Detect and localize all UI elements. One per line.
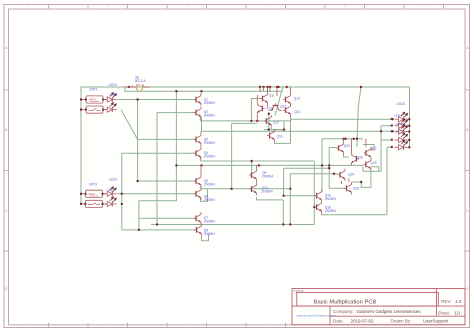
wire q2 emitter output: [200, 118, 291, 121]
junction node (345.5,138.8): [344, 138, 346, 140]
junction node (258.9,165.4): [258, 164, 260, 166]
wire led row5 feed: [387, 146, 393, 148]
wire led2 to q6 base: [117, 193, 196, 195]
wire q5 q6 emitter line: [202, 188, 291, 190]
junction node (251.4,120.9): [250, 120, 252, 122]
wire q6 emitter hook: [201, 189, 208, 202]
svg-text:LED3: LED3: [108, 188, 116, 192]
led LED6: [395, 119, 409, 129]
junction node (176.4,165.4): [175, 164, 177, 166]
transistor Q1 collector stub: [200, 91, 202, 93]
transistor Q5 collector stub: [200, 165, 202, 174]
junction node (267.5,87): [266, 86, 268, 88]
junction node (392.6,119.2): [391, 118, 393, 120]
transistor Q5: [194, 175, 202, 187]
wire q23 emitter loop: [361, 171, 371, 187]
wire box bottom: [363, 165, 381, 171]
junction node (201.5,91.2): [200, 90, 202, 92]
wire led2 net vertical: [121, 153, 123, 230]
transistor Q22 collector to rail stub: [365, 139, 367, 147]
wire led row2 feed: [381, 125, 393, 127]
svg-text:Q22: Q22: [371, 147, 377, 151]
svg-text:LED2: LED2: [109, 178, 117, 182]
wire led1 diagonal: [121, 110, 138, 140]
svg-text:2N3904: 2N3904: [325, 197, 336, 201]
wire led row4 feed: [381, 139, 393, 141]
junction node (121.8,193.8): [121, 193, 123, 195]
junction node (270,87): [269, 86, 271, 88]
wire bottom long net: [151, 224, 314, 226]
svg-text:2N3904: 2N3904: [262, 189, 273, 193]
wire q7 base feed: [139, 217, 196, 219]
transistor Q3: [194, 133, 202, 145]
wire q2 emitter down to row3: [201, 118, 203, 132]
junction node (137.6,181): [136, 180, 138, 182]
svg-text:Q24: Q24: [348, 173, 354, 177]
junction node (290.3,188.8): [289, 188, 291, 190]
junction node (409.3,131.6): [408, 130, 410, 132]
junction node (176.4,91.2): [175, 90, 177, 92]
svg-text:LED5: LED5: [397, 102, 405, 106]
svg-text:4: 4: [265, 5, 267, 9]
svg-text:REV:: REV:: [441, 299, 452, 304]
transistor Q11 emitter stub: [267, 105, 269, 107]
junction node (392.6,131.3): [391, 130, 393, 132]
transistor Q24: [338, 169, 346, 181]
led LED2: [103, 187, 117, 197]
wire second rail: [125, 87, 283, 91]
wire line A vertical: [313, 161, 315, 225]
svg-text:2N3904: 2N3904: [204, 113, 215, 117]
svg-text:easyeda.com/UserSupport​easyed: easyeda.com/UserSupport​easyeda: [297, 315, 337, 318]
cluster1 pin stub b: [263, 87, 265, 91]
wire q16 emitter out: [275, 142, 291, 144]
transistor Q6: [194, 188, 202, 200]
wire cluster2 top: [322, 138, 363, 140]
wire top rail: [81, 86, 410, 88]
wire q25 collector link: [352, 181, 362, 183]
transistor Q24 emitter stub: [340, 181, 342, 184]
wire q18 base stub: [314, 206, 316, 208]
dip switch DIP3a: [81, 190, 107, 197]
transistor Q16: [267, 129, 275, 141]
svg-text:2N3904: 2N3904: [204, 182, 215, 186]
junction node (343.5,138.8): [342, 138, 344, 140]
wire q23 box right: [371, 167, 379, 172]
transistor Q11: [260, 92, 268, 104]
junction node (201.5,165.4): [200, 164, 202, 166]
junction node (353.7,138.8): [353, 138, 355, 140]
transistor Q17 (rotated): [269, 103, 281, 111]
wire q10 emitter out: [257, 197, 284, 200]
transistor Q20 collector stub: [343, 139, 345, 142]
transistor Q11 collector stub: [267, 87, 269, 92]
wire q16 link: [264, 129, 284, 131]
transistor Q12 (mirrored): [257, 102, 265, 114]
svg-text:C: C: [5, 209, 8, 213]
wire q3 base feed: [138, 138, 196, 140]
junction node (409.3,140): [408, 139, 410, 141]
svg-text:2N3904: 2N3904: [204, 155, 215, 159]
wire cluster1 left loop: [251, 99, 262, 121]
wire cluster1 diagonal: [275, 87, 283, 116]
svg-text:6: 6: [423, 5, 425, 9]
transistor Q4: [194, 147, 202, 159]
svg-text:2N3904: 2N3904: [325, 209, 336, 213]
frame tick marks left: [4, 90, 9, 251]
junction node (286.7,87): [286, 86, 288, 88]
wire rail diag to cluster2: [357, 87, 361, 147]
led LED9: [395, 140, 409, 150]
junction node (283.6,195.7): [282, 195, 284, 197]
junction node (157,224.5): [156, 223, 158, 225]
transistor Q22 collector stub: [370, 147, 372, 150]
junction node (257.3,120.9): [256, 120, 258, 122]
led LED1: [103, 103, 117, 113]
svg-text:1.0: 1.0: [455, 299, 462, 304]
transistor Q3 collector stub: [200, 131, 202, 133]
transistor Q3 emitter to Q4 collector stub: [200, 146, 202, 147]
wire q24 base line: [290, 173, 337, 175]
svg-text:Q11: Q11: [269, 94, 275, 98]
wire led0 to q1 base: [117, 99, 196, 101]
wire q22 up link: [363, 145, 374, 151]
svg-text:DIP3: DIP3: [89, 183, 97, 187]
svg-text:C: C: [466, 209, 469, 213]
svg-text:B: B: [466, 128, 468, 132]
svg-text:Q13: Q13: [294, 96, 300, 100]
svg-text:2N3904: 2N3904: [262, 175, 273, 179]
svg-text:B: B: [5, 128, 7, 132]
junction node (121.8,203.9): [121, 203, 123, 205]
wire q24 net vertical: [289, 174, 291, 225]
junction node (129,87): [128, 86, 130, 88]
svg-text:D: D: [5, 287, 8, 291]
svg-text:LED4: LED4: [394, 114, 402, 118]
wire q2-q7 link vertical: [156, 113, 158, 225]
wire row5 vertical to q18 emitter: [386, 147, 388, 214]
junction node (334,173.8): [333, 173, 335, 175]
junction node (329.2,168.2): [328, 167, 330, 169]
transistor Q1: [194, 93, 202, 105]
svg-text:Q15: Q15: [273, 121, 279, 125]
svg-text:Date:: Date:: [333, 319, 344, 324]
svg-text:A: A: [466, 46, 469, 50]
junction node (137.6,99.5): [136, 98, 138, 100]
frame tick marks top: [49, 5, 444, 10]
transistor Q25: [344, 182, 352, 194]
wire led row3 long feed: [202, 130, 393, 132]
svg-text:TITLE:: TITLE:: [294, 289, 305, 293]
transistor Q18: [314, 201, 322, 213]
transistor Q15: [264, 115, 272, 127]
transistor Q8: [194, 224, 202, 236]
junction node (409.3,125.8): [408, 125, 410, 127]
wire left dip feed vertical: [80, 87, 82, 204]
junction node (268.8,129.6): [268, 128, 270, 130]
transistor Q16 collector stub: [274, 129, 276, 132]
svg-text:LED6: LED6: [396, 122, 404, 126]
svg-text:Q23: Q23: [371, 161, 377, 165]
wire branch down mid: [231, 123, 233, 188]
wire q4 emitter line A: [200, 160, 314, 162]
transistor Q19: [314, 190, 322, 202]
svg-text:Drawn By:: Drawn By:: [391, 319, 412, 324]
transistor Q7: [194, 212, 202, 224]
transistor Q22: [364, 147, 372, 159]
svg-text:2N3904: 2N3904: [204, 141, 215, 145]
transistor Q13 collector stub: [290, 87, 292, 93]
svg-text:Q16: Q16: [277, 135, 283, 139]
junction node (260,87): [259, 86, 261, 88]
svg-text:Sheet:: Sheet:: [438, 311, 450, 316]
junction node (290.3,224.5): [289, 223, 291, 225]
junction node (268.8,113.8): [268, 113, 270, 115]
wire q10 net down: [282, 200, 284, 225]
wire rail2 drop left: [139, 91, 177, 230]
led LED4: [395, 112, 409, 122]
wire row1 feed vertical: [290, 119, 292, 121]
wire led row1 feed: [291, 118, 393, 120]
svg-text:1: 1: [27, 5, 29, 9]
wire q25 base vertical: [328, 148, 330, 189]
cluster1 pin stub a: [259, 87, 261, 92]
transistor Q26 (mirrored): [351, 153, 359, 165]
dip switch DIP2a: [81, 96, 107, 103]
transistor Q9: [249, 169, 257, 181]
junction node (329.2,165.4): [328, 164, 330, 166]
svg-text:A: A: [5, 46, 8, 50]
wire q9 base branch: [249, 161, 252, 175]
transistor Q26 collector stub: [350, 139, 352, 153]
svg-text:DIP2: DIP2: [90, 88, 98, 92]
battery B1: [125, 76, 150, 92]
junction node (361,87): [360, 86, 362, 88]
junction node (322,165.4): [321, 164, 323, 166]
frame tick marks right: [465, 90, 470, 251]
svg-text:LED0: LED0: [109, 83, 117, 87]
wire led0 branch vertical: [137, 100, 139, 182]
led LED3: [103, 197, 117, 207]
junction node (381,131.3): [380, 130, 382, 132]
svg-text:LED7: LED7: [396, 130, 404, 134]
wire q8 emitter hook: [202, 234, 209, 241]
dip switch DIP3b: [81, 200, 107, 207]
svg-text:UserSupport: UserSupport: [423, 319, 449, 324]
transistor Q9 collector stub: [256, 165, 258, 168]
transistor Q10: [249, 183, 257, 195]
svg-text:Company:: Company:: [333, 309, 354, 314]
frame row letters: [5, 46, 469, 291]
led LED8: [395, 133, 409, 143]
svg-text:2: 2: [107, 5, 109, 9]
led LED0: [103, 93, 117, 103]
wire q4 base feed: [122, 152, 196, 154]
junction node (277,87): [276, 86, 278, 88]
svg-text:Q25: Q25: [353, 187, 359, 191]
svg-text:Q26: Q26: [357, 156, 363, 160]
wire q8 base feed: [122, 229, 197, 231]
svg-text:2N3904: 2N3904: [204, 198, 215, 202]
wire q20 base feed: [329, 147, 336, 149]
transistor Q23: [364, 158, 372, 170]
svg-text:D: D: [466, 287, 469, 291]
transistor Q2: [194, 106, 202, 118]
junction node (361.2,182): [360, 181, 362, 183]
transistor Q12 collector stub: [256, 95, 258, 102]
transistor Q20: [336, 142, 344, 154]
junction node (357,138.8): [356, 138, 358, 140]
transistor Q12 emitter stub: [256, 115, 258, 121]
svg-text:3: 3: [186, 5, 188, 9]
frame tick marks bottom: [49, 323, 286, 328]
svg-text:2N3904: 2N3904: [204, 101, 215, 105]
svg-text:5: 5: [344, 5, 346, 9]
wire q25 base feed: [329, 187, 345, 189]
wire led column right side vertical: [409, 87, 411, 148]
transistor Q17 collector stub: [276, 87, 278, 96]
wire q25 base rail: [284, 167, 330, 169]
wire q2 base feed: [157, 112, 196, 114]
svg-text:LED1: LED1: [110, 93, 118, 97]
led LED7: [395, 125, 409, 135]
wire q5 base feed: [138, 180, 196, 182]
svg-text:1/1: 1/1: [455, 311, 462, 316]
svg-text:Q14: Q14: [294, 110, 300, 114]
svg-text:16: 16: [137, 83, 141, 87]
wire q5 emitter hook: [200, 187, 201, 189]
transistor Q14: [283, 104, 291, 116]
wire q22 box vertical: [380, 126, 382, 172]
svg-text:Basic Multiplication PCB: Basic Multiplication PCB: [314, 299, 377, 305]
junction node (278.5,87): [277, 86, 279, 88]
junction node (314.3,207.1): [313, 206, 315, 208]
transistor Q13: [283, 93, 291, 105]
wire q19 base feed: [284, 168, 317, 196]
junction node (284,129.6): [283, 128, 285, 130]
svg-text:2019-07-02: 2019-07-02: [351, 319, 375, 324]
svg-text:2N3904: 2N3904: [204, 220, 215, 224]
wire q15 emitter down: [271, 122, 284, 130]
wire collector rail mid: [176, 164, 363, 166]
wire q19 collector vertical: [321, 139, 323, 193]
junction node (231.6,188.8): [230, 188, 232, 190]
pin squares led column: [80, 99, 393, 205]
junction node (263.5,87): [262, 86, 264, 88]
title block outer box: [292, 289, 465, 326]
wire q18 emitter line: [322, 213, 387, 214]
junction node (409.3,147.3): [408, 146, 410, 148]
junction node (138.9,229.9): [138, 229, 140, 231]
junction node (409.3,119.2): [408, 118, 410, 120]
wire q20 emitter link: [344, 154, 350, 157]
cluster1 pin stub c: [269, 87, 271, 92]
svg-text:2N3904: 2N3904: [204, 232, 215, 236]
wire q17 link: [268, 114, 270, 130]
dip switch DIP2b: [81, 106, 107, 113]
transistor Q9 emitter to Q10 collector stub: [256, 181, 258, 183]
transistor Q25 collector stub: [348, 178, 350, 182]
svg-text:Gabriel's Gadgets Unexistences: Gabriel's Gadgets Unexistences: [357, 309, 422, 314]
svg-text:Q20: Q20: [344, 144, 350, 148]
wire q14 emitter drop: [290, 115, 292, 143]
wire q4 emitter hook: [199, 157, 201, 161]
junction node (251.7,161): [251, 160, 253, 162]
wire branch stub: [232, 122, 258, 124]
junction node (283.3,224.5): [282, 223, 284, 225]
